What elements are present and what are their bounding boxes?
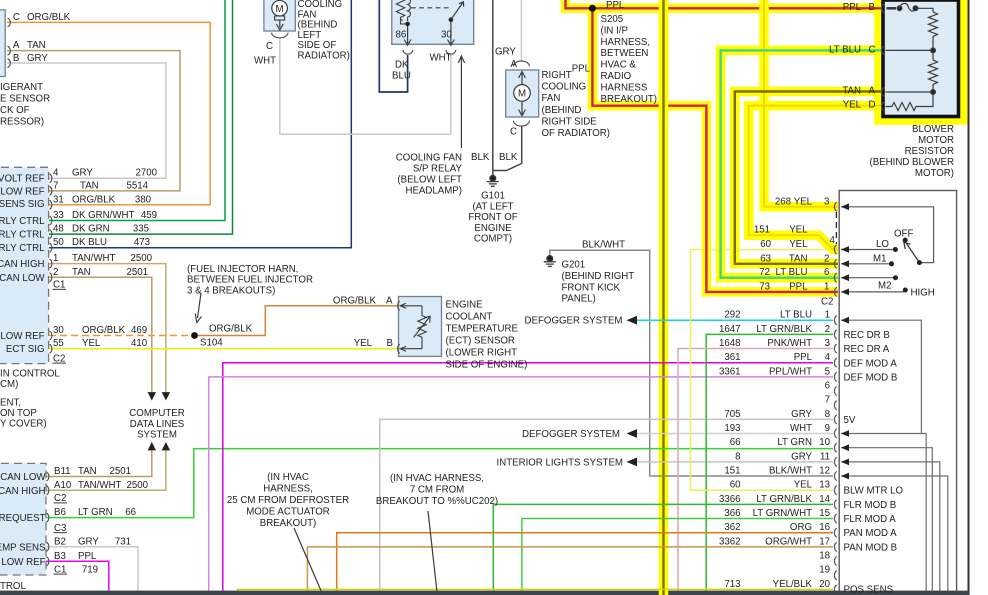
wire BLK/WHT 151 G201 to HVAC pin 12 [550, 250, 833, 476]
wire DK BLU relay pin 86 loop [379, 0, 407, 92]
svg-text:2: 2 [825, 324, 830, 335]
svg-text:TAN: TAN [842, 86, 861, 97]
wire internal HVAC pin 11 exit down [841, 462, 940, 591]
svg-text:DEF MOD B: DEF MOD B [844, 373, 898, 384]
relay pin 30 arc [446, 50, 456, 54]
svg-text:18: 18 [819, 551, 830, 562]
svg-text:1648: 1648 [719, 338, 741, 349]
wire internal link HVAC pin 1 to pin 9 [841, 320, 921, 433]
svg-text:4: 4 [53, 168, 59, 179]
splice S104 [191, 332, 198, 339]
svg-text:TAN: TAN [27, 40, 46, 51]
svg-text:S205: S205 [601, 14, 624, 25]
svg-text:LT GRN/WHT: LT GRN/WHT [753, 508, 812, 519]
svg-text:RESISTOR: RESISTOR [905, 146, 954, 157]
svg-text:YEL: YEL [354, 338, 373, 349]
svg-text:YEL/BLK: YEL/BLK [773, 579, 813, 590]
svg-text:TAN: TAN [78, 466, 97, 477]
svg-text:LT GRN/BLK: LT GRN/BLK [756, 324, 812, 335]
svg-text:2: 2 [53, 267, 58, 278]
svg-text:REC DR B: REC DR B [844, 330, 890, 341]
bottom crop bar [0, 591, 969, 595]
cooling fan relay box [392, 0, 474, 44]
svg-text:MODE ACTUATOR: MODE ACTUATOR [246, 507, 330, 518]
svg-text:YEL: YEL [843, 100, 862, 111]
svg-text:ENT,: ENT, [0, 398, 21, 409]
wire C ORG/BLK refrigerant sensor to PCM pin 31 [7, 22, 210, 204]
svg-text:DEF MOD A: DEF MOD A [844, 358, 898, 369]
wire 1647 LT GRN/BLK to HVAC pin 2 [706, 334, 833, 591]
svg-text:(BELOW LEFT: (BELOW LEFT [397, 174, 462, 185]
svg-text:7: 7 [53, 180, 58, 191]
svg-text:19: 19 [819, 565, 830, 576]
svg-text:(BEHIND RIGHT: (BEHIND RIGHT [562, 271, 635, 282]
svg-text:COOLANT: COOLANT [446, 312, 493, 323]
svg-text:12: 12 [819, 466, 830, 477]
svg-text:1: 1 [53, 253, 58, 264]
blower motor resistor highlight frame [879, 0, 964, 121]
svg-text:COMPT): COMPT) [474, 234, 512, 245]
svg-text:(BEHIND: (BEHIND [542, 105, 582, 116]
svg-text:713: 713 [724, 579, 740, 590]
HVAC pin arcs lower connector [834, 316, 836, 594]
resistor pin C internal [886, 49, 934, 51]
wire 8 GRY interior lights system to HVAC pin 11 [637, 461, 833, 463]
svg-text:6: 6 [824, 267, 829, 278]
svg-text:IN CONTROL: IN CONTROL [0, 369, 60, 380]
svg-text:REQUEST: REQUEST [0, 513, 46, 524]
svg-text:292: 292 [724, 310, 740, 321]
svg-text:TAN: TAN [80, 180, 99, 191]
svg-text:RLY CTRL: RLY CTRL [0, 216, 45, 227]
svg-text:RESSOR): RESSOR) [0, 117, 44, 128]
svg-text:LT BLU: LT BLU [776, 267, 808, 278]
svg-text:FRONT OF: FRONT OF [468, 212, 517, 223]
svg-text:FLR MOD A: FLR MOD A [844, 514, 897, 525]
svg-text:RADIATOR): RADIATOR) [298, 51, 350, 62]
computer data lines arrows [148, 392, 170, 450]
svg-text:1647: 1647 [719, 324, 741, 335]
svg-text:50: 50 [53, 237, 64, 248]
svg-text:30: 30 [441, 30, 452, 41]
svg-text:8: 8 [735, 451, 740, 462]
svg-text:361: 361 [724, 352, 740, 363]
svg-text:(FUEL INJECTOR HARN,: (FUEL INJECTOR HARN, [187, 264, 298, 275]
svg-text:BLK: BLK [499, 152, 518, 163]
wire 72 LT BLU highlighted resistor C to switch pin 6 [721, 50, 881, 277]
svg-text:20: 20 [819, 579, 830, 590]
svg-text:PPL/WHT: PPL/WHT [769, 366, 812, 377]
svg-text:13: 13 [819, 480, 830, 491]
svg-text:2500: 2500 [126, 480, 148, 491]
PCM pin name labels [0, 174, 45, 356]
svg-text:HARNESS,: HARNESS, [601, 37, 651, 48]
switch common line pin 3 [841, 207, 934, 263]
wire 2 TAN 2501 upper [49, 277, 152, 392]
relay pin 86 arc [403, 50, 413, 54]
svg-text:CM): CM) [0, 379, 18, 390]
svg-text:A: A [869, 86, 876, 97]
wire 361 PPL to HVAC pin 4 [223, 363, 833, 591]
svg-text:RLY CTRL: RLY CTRL [0, 243, 45, 254]
svg-text:HVAC &: HVAC & [601, 60, 637, 71]
relay contact dashed link [411, 7, 452, 9]
svg-text:RIGHT SIDE: RIGHT SIDE [542, 116, 598, 127]
svg-text:WHT: WHT [254, 56, 276, 67]
wire A10 TAN/WHT 2500 lower [46, 450, 166, 490]
left fan motor pin C arc [272, 33, 288, 38]
svg-text:60: 60 [760, 239, 771, 250]
svg-text:YEL: YEL [82, 338, 101, 349]
svg-text:C: C [869, 44, 876, 55]
ground G201 [544, 256, 556, 267]
svg-text:C: C [266, 41, 273, 52]
callout arrow cooling fan relay [458, 56, 464, 148]
svg-text:GRY: GRY [78, 536, 99, 547]
svg-text:731: 731 [115, 536, 131, 547]
svg-text:ENGINE: ENGINE [474, 223, 512, 234]
wire WHT left fan motor C to relay pin 30 [280, 38, 451, 134]
wire 193 WHT defogger system to HVAC pin 9 [637, 433, 833, 435]
svg-text:TAN: TAN [789, 253, 808, 264]
svg-text:MOTOR: MOTOR [918, 135, 954, 146]
resistor pin A internal [886, 91, 934, 93]
svg-text:BETWEEN FUEL INJECTOR: BETWEEN FUEL INJECTOR [187, 275, 313, 286]
svg-text:SIDE OF ENGINE): SIDE OF ENGINE) [446, 360, 528, 371]
blower motor resistor box [883, 0, 959, 117]
svg-text:FLR MOD B: FLR MOD B [844, 500, 897, 511]
pin C arc [8, 18, 11, 27]
svg-text:OF RADIATOR): OF RADIATOR) [542, 128, 611, 139]
svg-text:DK: DK [395, 60, 409, 71]
svg-text:SYSTEM: SYSTEM [137, 430, 177, 441]
ECT pin arcs [398, 301, 400, 310]
svg-text:1: 1 [824, 281, 829, 292]
svg-text:OFF: OFF [894, 229, 913, 240]
wire 60 YEL switch pin 4 to HVAC pin 13 [691, 250, 837, 491]
svg-text:4: 4 [825, 352, 831, 363]
svg-text:BETWEEN: BETWEEN [601, 48, 649, 59]
svg-text:YEL: YEL [789, 225, 808, 236]
svg-text:3: 3 [825, 338, 830, 349]
svg-text:17: 17 [819, 536, 830, 547]
svg-text:D: D [869, 100, 876, 111]
ECT pin B arrow [400, 346, 422, 351]
wire internal HVAC pin 9 exit down [841, 434, 926, 592]
svg-text:TEMPERATURE: TEMPERATURE [446, 324, 519, 335]
svg-text:YEL: YEL [794, 196, 813, 207]
svg-text:15: 15 [819, 508, 830, 519]
svg-text:268: 268 [775, 196, 791, 207]
blower resistor caption [869, 124, 954, 179]
wire 362 ORG to HVAC pin 16 [337, 533, 833, 591]
wire 33 DK GRN/WHT 459 [49, 0, 225, 221]
wire B2 GRY 731 [46, 547, 138, 591]
wire 3366 LT GRN/BLK to HVAC pin 14 [493, 504, 833, 591]
svg-text:COOLING: COOLING [542, 82, 587, 93]
svg-text:HARNESS,: HARNESS, [263, 484, 313, 495]
svg-text:3 & 4 BREAKOUTS): 3 & 4 BREAKOUTS) [187, 285, 275, 296]
svg-text:14: 14 [819, 494, 830, 505]
right fan motor M symbol [514, 85, 531, 102]
relay coil [396, 0, 404, 20]
svg-text:HIGH: HIGH [911, 287, 935, 298]
relay pin 86 lead [404, 26, 411, 45]
svg-text:RIGHT: RIGHT [542, 70, 572, 81]
svg-text:PPL: PPL [572, 64, 591, 75]
svg-text:66: 66 [125, 507, 136, 518]
svg-text:BLU: BLU [392, 71, 411, 82]
svg-text:ORG: ORG [790, 522, 812, 533]
svg-text:A: A [511, 59, 518, 70]
svg-text:M: M [276, 4, 284, 15]
svg-text:INTERIOR LIGHTS SYSTEM: INTERIOR LIGHTS SYSTEM [497, 457, 624, 468]
svg-text:RADIO: RADIO [601, 71, 632, 82]
resistor pin D internal element [886, 94, 934, 110]
svg-text:(AT LEFT: (AT LEFT [472, 201, 513, 212]
svg-text:LT GRN/BLK: LT GRN/BLK [756, 494, 812, 505]
svg-text:PAN MOD A: PAN MOD A [844, 528, 898, 539]
wire 151 YEL core [749, 106, 881, 250]
svg-text:ORG/BLK: ORG/BLK [209, 324, 253, 335]
wire PPL highlighted feed from top to blower resistor pin B [566, 0, 882, 8]
svg-text:DK BLU: DK BLU [72, 237, 107, 248]
svg-text:6: 6 [825, 381, 830, 392]
svg-text:WHT: WHT [790, 423, 812, 434]
svg-text:3366: 3366 [719, 494, 741, 505]
PCM lower connector box [0, 463, 46, 575]
wire 3361 PPL/WHT to HVAC pin 5 [209, 377, 833, 591]
refrigerant pressure sensor box [0, 10, 5, 77]
svg-text:CAN HIGH: CAN HIGH [0, 259, 45, 270]
svg-text:G201: G201 [562, 260, 586, 271]
svg-text:(BEHIND BLOWER: (BEHIND BLOWER [869, 157, 954, 168]
wire 292 LT BLU defogger system to HVAC pin 1 [637, 319, 833, 321]
wire 63 TAN highlighted resistor A to switch pin 2 [735, 92, 881, 264]
svg-text:11: 11 [820, 451, 830, 462]
wire BLK right fan motor C to G101 [493, 126, 522, 171]
svg-text:2500: 2500 [130, 253, 152, 264]
svg-text:33: 33 [53, 210, 64, 221]
switch contacts [903, 238, 908, 243]
svg-text:5: 5 [825, 366, 830, 377]
svg-text:PPL: PPL [606, 0, 625, 11]
wire PPL highlighted branch S205 to fan switch pin 1 [592, 8, 838, 292]
svg-text:(IN HVAC: (IN HVAC [267, 472, 309, 483]
svg-text:HARNESS: HARNESS [601, 82, 648, 93]
svg-text:410: 410 [131, 338, 148, 349]
svg-text:POS SENS: POS SENS [844, 585, 894, 595]
svg-text:E SENSOR: E SENSOR [0, 94, 50, 105]
svg-text:25 CM FROM DEFROSTER: 25 CM FROM DEFROSTER [227, 495, 349, 506]
svg-text:3: 3 [824, 196, 829, 207]
svg-text:BREAKOUT): BREAKOUT) [601, 94, 658, 105]
svg-text:66: 66 [730, 437, 741, 448]
svg-text:C2: C2 [821, 297, 833, 308]
callout line 25 cm note [294, 528, 322, 593]
callout arrow fuel injector splice [195, 293, 201, 323]
svg-text:72: 72 [759, 267, 770, 278]
relay pin 30 lead [448, 22, 455, 45]
svg-text:BREAKOUT TO %%UC202): BREAKOUT TO %%UC202) [376, 496, 498, 507]
svg-text:366: 366 [724, 508, 740, 519]
svg-text:DATA LINES: DATA LINES [130, 419, 185, 430]
svg-text:LT BLU: LT BLU [829, 44, 861, 55]
svg-text:DK GRN: DK GRN [72, 224, 110, 235]
svg-text:C: C [510, 127, 517, 138]
wire 1 TAN/WHT 2500 upper [49, 264, 166, 392]
HVAC C2 wire labels [754, 196, 813, 292]
HVAC control module box [839, 191, 956, 595]
HVAC pin arcs C2 [834, 202, 836, 296]
svg-text:30: 30 [53, 325, 64, 336]
svg-text:PPL: PPL [794, 352, 813, 363]
wire YEL trunk core top [659, 0, 669, 118]
left fan motor M symbol [272, 0, 288, 16]
svg-text:(ECT) SENSOR: (ECT) SENSOR [446, 336, 515, 347]
wire B11 TAN 2501 lower [46, 450, 152, 477]
right cooling fan motor box [506, 70, 539, 117]
defogger system arrow lower [627, 429, 638, 438]
svg-text:PPL: PPL [789, 281, 808, 292]
svg-text:TAN: TAN [72, 267, 91, 278]
svg-text:B2: B2 [54, 536, 66, 547]
svg-text:LT BLU: LT BLU [780, 310, 812, 321]
svg-text:LO: LO [876, 239, 889, 250]
svg-text:HEADLAMP): HEADLAMP) [405, 185, 462, 196]
wire GRY right fan motor pin A [520, 0, 522, 62]
svg-text:ECT SIG: ECT SIG [6, 344, 45, 355]
PCM pin arcs [47, 174, 52, 566]
svg-text:SENS SIG: SENS SIG [0, 199, 45, 210]
svg-text:ORG/WHT: ORG/WHT [765, 536, 812, 547]
resistor pin arcs [882, 4, 885, 111]
resistor element 1 [929, 12, 938, 48]
svg-text:2700: 2700 [135, 168, 157, 179]
wire 705 GRY 5V to HVAC pin 8 [380, 419, 833, 591]
resistor element 2 [929, 53, 938, 92]
svg-text:473: 473 [134, 237, 150, 248]
HIGHLIGHTS [566, 0, 964, 292]
wire B3 PPL 719 [46, 561, 109, 591]
svg-text:LT GRN: LT GRN [78, 507, 113, 518]
svg-text:WHT: WHT [430, 53, 452, 64]
svg-text:7: 7 [825, 395, 830, 406]
svg-text:ORG/BLK: ORG/BLK [82, 325, 126, 336]
svg-text:5514: 5514 [126, 180, 148, 191]
HVAC lower connector wire labels [719, 310, 813, 590]
svg-text:COMPUTER: COMPUTER [129, 408, 184, 419]
svg-text:B6: B6 [54, 507, 66, 518]
svg-text:MOTOR): MOTOR) [915, 168, 954, 179]
svg-text:A: A [386, 295, 393, 306]
wire 30 ORG/BLK 469 dashed to splice S104 [49, 335, 195, 337]
svg-text:GRY: GRY [72, 168, 93, 179]
svg-text:(LOWER RIGHT: (LOWER RIGHT [446, 348, 518, 359]
svg-text:CAN LOW: CAN LOW [0, 273, 45, 284]
svg-text:(IN I/P: (IN I/P [601, 25, 628, 36]
pin A arc [8, 46, 11, 55]
wire YEL highlighted vertical trunk [659, 0, 669, 595]
svg-text:DK GRN/WHT: DK GRN/WHT [72, 210, 135, 221]
svg-text:60: 60 [730, 480, 741, 491]
pin B arc [8, 59, 11, 68]
svg-text:31: 31 [53, 194, 64, 205]
wire BLK to ground G101 [492, 0, 494, 175]
ECT thermistor [418, 306, 426, 349]
wire 50 DK BLU 473 [49, 0, 351, 248]
wire 48 DK GRN 335 [49, 0, 233, 234]
wire 713 YEL/BLK to HVAC pin 20 [238, 589, 834, 592]
svg-text:BLOWER: BLOWER [912, 124, 954, 135]
svg-text:A: A [13, 40, 20, 51]
svg-text:BREAKOUT): BREAKOUT) [260, 518, 317, 529]
callout line 7 cm note [428, 511, 437, 592]
wire 366 LT GRN/WHT to HVAC pin 15 [522, 519, 833, 592]
svg-text:VOLT REF: VOLT REF [0, 174, 45, 185]
svg-text:C: C [13, 12, 20, 23]
svg-text:335: 335 [133, 224, 149, 235]
svg-text:4: 4 [830, 235, 836, 246]
svg-text:DEFOGGER SYSTEM: DEFOGGER SYSTEM [525, 316, 623, 327]
svg-text:COOLING FAN: COOLING FAN [396, 152, 462, 163]
svg-text:G101: G101 [481, 191, 505, 202]
svg-text:719: 719 [82, 564, 98, 575]
connector dashed boundary above pin 4 [835, 212, 837, 244]
wire A TAN refrigerant sensor to PCM pin 7 [7, 51, 180, 191]
svg-text:REC DR A: REC DR A [844, 344, 890, 355]
svg-text:GRY: GRY [791, 451, 812, 462]
svg-text:FRONT KICK: FRONT KICK [562, 282, 621, 293]
right fan pin A arc [513, 61, 529, 66]
wire internal HVAC pin 10 exit down [841, 448, 932, 591]
svg-text:B3: B3 [54, 551, 66, 562]
left cooling fan motor box [264, 0, 295, 31]
relay switch blade [449, 17, 454, 22]
svg-text:3362: 3362 [719, 536, 741, 547]
svg-text:TROL: TROL [0, 581, 26, 592]
wire B6 LT GRN 66 to HVAC pin 10 [46, 449, 833, 518]
svg-text:9: 9 [825, 423, 830, 434]
right fan pin C arc [513, 121, 529, 126]
wire 63 TAN core [735, 92, 881, 264]
svg-text:151: 151 [754, 225, 770, 236]
svg-text:M: M [518, 89, 526, 100]
defogger system arrow upper [627, 316, 638, 325]
svg-text:ON TOP: ON TOP [0, 408, 37, 419]
svg-text:362: 362 [724, 522, 740, 533]
svg-text:LOW REF: LOW REF [0, 331, 44, 342]
svg-text:PAN MOD B: PAN MOD B [844, 542, 898, 553]
svg-text:B: B [387, 338, 393, 349]
wire ORG/BLK from S104 to ECT sensor pin A [195, 306, 399, 336]
svg-text:A10: A10 [54, 480, 72, 491]
wire PPL core from top and S205 to resistor B and switch pin 1 [566, 0, 882, 292]
svg-text:86: 86 [396, 30, 407, 41]
svg-text:LOW REF: LOW REF [0, 186, 44, 197]
svg-text:B: B [13, 53, 19, 64]
svg-text:M2: M2 [878, 281, 891, 292]
svg-text:BLW MTR LO: BLW MTR LO [844, 486, 904, 497]
svg-text:DEFOGGER SYSTEM: DEFOGGER SYSTEM [522, 429, 620, 440]
svg-text:S104: S104 [200, 338, 223, 349]
svg-text:BLK/WHT: BLK/WHT [769, 466, 812, 477]
svg-text:GRY: GRY [27, 53, 48, 64]
svg-text:LOW REF: LOW REF [1, 557, 45, 568]
svg-text:B: B [869, 2, 875, 13]
svg-text:YEL: YEL [789, 239, 808, 250]
page border right [968, 0, 970, 595]
